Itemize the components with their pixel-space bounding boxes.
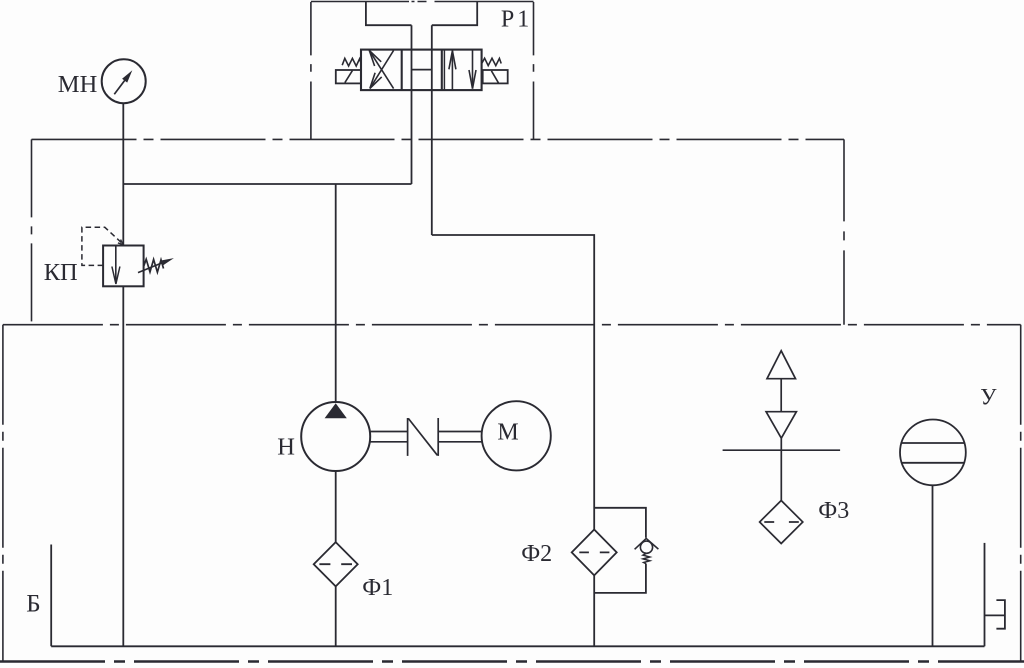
svg-text:Ф2: Ф2: [521, 541, 552, 567]
svg-text:Ф3: Ф3: [818, 498, 849, 524]
svg-text:МН: МН: [58, 71, 97, 98]
svg-text:КП: КП: [44, 259, 78, 286]
svg-text:Р1: Р1: [501, 6, 532, 32]
svg-text:У: У: [980, 385, 997, 410]
svg-text:Ф1: Ф1: [362, 575, 393, 601]
svg-text:Н: Н: [277, 434, 295, 461]
svg-text:М: М: [497, 419, 518, 445]
svg-text:Б: Б: [26, 590, 40, 617]
